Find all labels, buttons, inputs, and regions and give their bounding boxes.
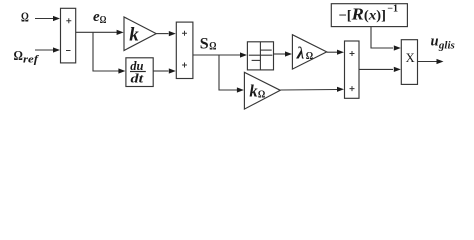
plus sign S2 top	[182, 31, 187, 36]
arrowhead u_glis	[437, 59, 444, 64]
sign block +1 level	[260, 49, 271, 51]
arrowhead into X top	[394, 45, 401, 50]
wire du/dt out to S2	[153, 70, 168, 72]
arrowhead omega	[53, 16, 60, 21]
gain k-omega (triangle)	[244, 72, 280, 109]
svg-text:Ω: Ω	[306, 50, 314, 62]
svg-text:X: X	[406, 51, 415, 65]
arrowhead into S3 bottom	[337, 87, 344, 92]
svg-text:Ω: Ω	[258, 88, 266, 100]
svg-text:Ω: Ω	[100, 15, 107, 26]
arrowhead into S2 top	[169, 31, 176, 36]
wire junction drop to du/dt	[93, 32, 119, 71]
arrowhead into X bottom	[394, 67, 401, 72]
arrowhead omega_ref	[53, 47, 60, 52]
plus sign S1	[66, 18, 71, 23]
arrowhead into du/dt	[118, 68, 125, 73]
gain matrix block -[R(x)]^-1	[331, 4, 407, 27]
arrowhead into sign block	[240, 52, 247, 57]
wire junction drop to k-omega	[219, 55, 237, 90]
sign block -1 level	[252, 59, 261, 61]
wire k-omega out to S3	[280, 89, 337, 92]
sign block (relay)	[247, 42, 273, 70]
svg-text:Ω: Ω	[14, 49, 23, 64]
svg-text:u: u	[431, 33, 439, 49]
arrowhead into k	[117, 30, 124, 35]
wire R box down to X	[371, 27, 393, 48]
svg-text:Ω: Ω	[209, 40, 216, 52]
wire sign block to lambda	[274, 53, 287, 55]
svg-text:S: S	[200, 36, 209, 53]
plus sign S3 top	[350, 51, 355, 56]
arrowhead into S3 top	[337, 50, 344, 55]
sign block vertical	[259, 42, 261, 70]
svg-text:Ω: Ω	[21, 11, 29, 26]
summing junction S1	[61, 8, 76, 63]
wire k out to S2	[156, 33, 168, 35]
wire S_omega: S2 to sign block	[193, 54, 241, 56]
plus sign S2 bottom	[182, 63, 187, 68]
derivative block du/dt	[126, 58, 153, 87]
wire lambda out to S3	[327, 51, 337, 53]
gain lambda (triangle)	[292, 35, 326, 69]
svg-text:glis: glis	[438, 40, 455, 52]
multiplier block X	[401, 40, 417, 85]
svg-text:−1: −1	[387, 4, 398, 15]
minus sign S1	[66, 50, 71, 52]
plus sign S3 bottom	[350, 86, 355, 91]
wire e_omega: S1 to k	[76, 31, 118, 33]
arrowhead into lambda	[285, 51, 292, 56]
wire omega_ref input	[35, 49, 54, 51]
summing junction S2	[176, 22, 193, 78]
wire omega input	[35, 18, 54, 20]
svg-text:dt: dt	[131, 72, 144, 86]
svg-text:λ: λ	[296, 43, 305, 62]
arrowhead into S2 bottom	[169, 68, 176, 73]
arrowhead into k-omega	[237, 87, 244, 92]
wire X out u_glis	[418, 61, 438, 63]
summing junction S3	[345, 41, 360, 98]
svg-text:−[R(x)]: −[R(x)]	[339, 4, 387, 23]
fraction bar	[130, 71, 146, 73]
wire S3 out to X	[359, 68, 393, 70]
sign block axis	[249, 54, 273, 56]
gain k (triangle)	[124, 17, 156, 51]
svg-text:ref: ref	[23, 53, 40, 65]
svg-text:k: k	[129, 25, 139, 46]
